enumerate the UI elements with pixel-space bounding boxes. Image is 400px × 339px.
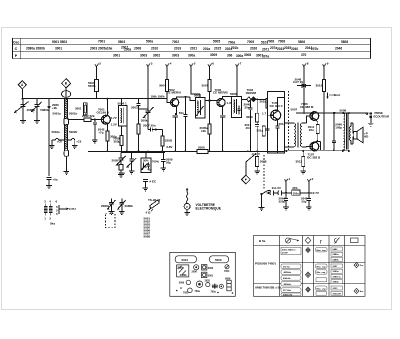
svg-text:500a: 500a	[146, 40, 153, 44]
svg-text:+2: +2	[98, 62, 102, 66]
svg-text:5480b: 5480b	[333, 258, 340, 261]
svg-text:2006: 2006	[198, 146, 205, 150]
wire battery caps	[283, 193, 289, 210]
junction dots on antenna bus	[21, 98, 67, 100]
wire 5008 primary to rails	[342, 113, 344, 150]
coil inside 5004	[120, 108, 123, 124]
table row2 values	[26, 46, 342, 52]
pcb part 5001b	[202, 272, 207, 277]
wire secondary bottom to T6 base	[302, 146, 310, 148]
pcb screw 7004	[225, 265, 229, 269]
wire T2 collector to 5005	[176, 97, 195, 101]
pcb part 7001	[188, 288, 193, 293]
svg-text:5008: 5008	[340, 109, 347, 113]
wire stub5 to 5005 top	[191, 79, 200, 98]
svg-text:2005a10a: 2005a10a	[98, 47, 112, 51]
wire 2006a to bus	[161, 146, 163, 151]
supply stub +6	[208, 65, 211, 80]
svg-text:4 Ω: 4 Ω	[146, 211, 152, 215]
svg-text:3001: 3001	[75, 107, 82, 111]
junction dot coupling	[184, 96, 186, 98]
wire diode node down to rail	[303, 86, 305, 113]
pots row wire	[121, 151, 165, 153]
IF transformer 5005 box	[195, 98, 205, 119]
transistor T5 7006	[310, 112, 319, 121]
resistor 3007	[208, 80, 211, 92]
svg-text:≠ EC: ≠ EC	[150, 179, 157, 183]
table row3 values	[113, 53, 307, 59]
svg-text:2006: 2006	[192, 271, 198, 274]
resistor 3004	[166, 80, 169, 92]
legend header rect symbol	[351, 238, 359, 243]
svg-text:+C6: +C6	[76, 140, 82, 144]
svg-text:Max. cap: Max. cap	[317, 266, 327, 268]
pcb part 5003	[202, 265, 207, 270]
svg-text:5480a: 5480a	[333, 253, 340, 256]
svg-text:201a: 201a	[257, 129, 264, 133]
ground below +5a jack	[46, 186, 52, 189]
svg-text:CE MER/A: CE MER/A	[167, 91, 183, 95]
capacitor 185 drop	[183, 97, 187, 152]
wire T2 emitter down	[175, 107, 177, 116]
svg-text:5001a: 5001a	[53, 112, 62, 116]
diode 7004b diamond	[251, 97, 256, 102]
capacitor 2007	[150, 128, 155, 132]
supply stub +2 above 5003	[95, 65, 98, 80]
earphone jack	[365, 113, 368, 115]
table frame	[13, 38, 371, 58]
svg-text:+4: +4	[168, 62, 172, 66]
svg-text:2080a 2080b: 2080a 2080b	[26, 47, 45, 51]
svg-text:POS/508 748(*): POS/508 748(*)	[255, 262, 276, 266]
battery terminal +1	[285, 180, 288, 193]
transistor T2 7002	[171, 98, 179, 106]
svg-text:2080b: 2080b	[333, 282, 340, 284]
svg-text:3001: 3001	[55, 46, 62, 50]
svg-text:5004 1: 5004 1	[118, 102, 128, 106]
wire T1 collector up to rail	[106, 99, 108, 116]
capacitor 2045	[306, 193, 312, 210]
svg-text:2003: 2003	[131, 106, 138, 110]
svg-text:I=±8mA: I=±8mA	[330, 93, 342, 97]
resistor 3011	[316, 120, 318, 124]
svg-text:306: 306	[227, 54, 233, 58]
voltmeter circle	[184, 203, 190, 209]
transistor T4 7005	[271, 110, 281, 120]
svg-text:201b: 201b	[260, 99, 267, 103]
wire output rail	[296, 112, 368, 114]
svg-text:30%: 30%	[292, 186, 298, 190]
svg-text:2019: 2019	[174, 47, 181, 51]
junction dot	[155, 129, 157, 131]
wire T4 base	[268, 114, 272, 116]
svg-text:100k 100%: 100k 100%	[151, 95, 166, 99]
svg-text:5ka: 5ka	[50, 222, 55, 226]
wire switch to ground	[259, 194, 265, 211]
svg-text:1.2V: 1.2V	[111, 123, 117, 127]
svg-text:+9: +9	[325, 62, 329, 66]
pickup connector coil 1	[44, 207, 48, 213]
svg-text:50µ: 50µ	[302, 199, 307, 203]
svg-text:5m: 5m	[360, 265, 363, 267]
svg-text:3012: 3012	[296, 159, 303, 163]
pcb coil 5000	[210, 256, 229, 263]
svg-text:5001: 5001	[182, 258, 189, 262]
battery terminal +2	[307, 180, 310, 193]
legend table frame	[254, 236, 366, 297]
svg-text:7002: 7002	[172, 40, 179, 44]
capacitor 2008	[161, 152, 165, 168]
wire secondary to speaker	[351, 123, 354, 144]
svg-text:50%: 50%	[143, 158, 149, 162]
svg-text:500a 2080a·±··: 500a 2080a·±··	[282, 249, 297, 251]
resistor 3013	[323, 80, 326, 92]
resistor 201b on box edge	[266, 99, 269, 109]
capacitor 2046b column	[332, 113, 336, 150]
ferrite rod with winding hatch	[65, 99, 68, 150]
loopstick oval	[62, 91, 71, 98]
svg-text:2008: 2008	[134, 47, 141, 51]
pickup arrow PU	[59, 205, 68, 214]
resistor 3040	[262, 126, 265, 136]
svg-text:3013: 3013	[316, 84, 323, 88]
wire 3002 to bus	[106, 141, 108, 151]
G_MID	[68, 62, 270, 157]
svg-text:5803: 5803	[118, 40, 125, 44]
wire 7008 to bus	[121, 146, 123, 152]
legend col3 diamonds	[306, 248, 311, 253]
svg-text:13k: 13k	[201, 129, 206, 133]
pcb small pads	[176, 287, 233, 294]
svg-text:5806: 5806	[298, 40, 305, 44]
pcb part 5006	[186, 280, 190, 284]
legend header diamond	[305, 237, 311, 243]
svg-text:100µ: 100µ	[335, 126, 342, 130]
svg-text:Min. cap: Min. cap	[317, 272, 326, 274]
svg-text:702a: 702a	[211, 290, 217, 293]
pcb cap 2006	[194, 265, 199, 270]
svg-text:2080a: 2080a	[101, 204, 110, 208]
svg-text:501 5a: 501 5a	[283, 266, 290, 268]
svg-text:+2: +2	[310, 177, 314, 181]
svg-text:20n: 20n	[309, 128, 314, 132]
svg-text:50µ: 50µ	[166, 160, 171, 164]
pcb part 2033	[206, 283, 210, 287]
junction dot T3 base	[208, 99, 210, 101]
legend col2 cells	[281, 247, 301, 296]
svg-text:2x1.5V: 2x1.5V	[272, 186, 281, 190]
capacitor T2 emitter	[173, 113, 178, 151]
svg-text:2080b: 2080b	[180, 274, 187, 277]
pcb cross part 5007	[212, 284, 217, 289]
svg-text:3004: 3004	[159, 83, 166, 87]
svg-text:201b: 201b	[231, 46, 238, 50]
resistor 300k column	[138, 109, 140, 124]
volume resistor 3008	[256, 151, 258, 156]
svg-text:CE 388 M: CE 388 M	[300, 105, 314, 109]
capacitor 2028	[266, 124, 270, 134]
svg-text:1.7V: 1.7V	[111, 116, 117, 120]
svg-text:CAT 2k: CAT 2k	[293, 80, 303, 84]
wire 3011 to T6 emitter	[316, 134, 318, 142]
svg-text:300µ: 300µ	[114, 139, 121, 143]
wire T4 collector	[277, 98, 284, 112]
svg-text:+7: +7	[238, 62, 242, 66]
svg-text:3001: 3001	[113, 53, 120, 57]
svg-text:ECOUTEUR: ECOUTEUR	[374, 114, 390, 118]
svg-text:≠ PU: ≠ PU	[69, 207, 76, 211]
ferrite rod middle joint	[64, 119, 69, 125]
resistor 3009	[256, 99, 258, 113]
svg-text:OC169 B: OC169 B	[97, 110, 110, 114]
pickup connector coil 2	[49, 207, 53, 213]
svg-text:20·6P: 20·6P	[282, 252, 288, 254]
svg-text:3008: 3008	[260, 159, 267, 163]
svg-text:320Ω: 320Ω	[165, 138, 173, 142]
pickup pin numbers	[44, 200, 58, 221]
svg-text:7008: 7008	[267, 39, 274, 43]
wire diamond B to loop	[65, 88, 67, 99]
wire primary bottom	[285, 146, 294, 148]
variable capacitor 2080b	[32, 99, 42, 112]
wire 5004 bottom down	[121, 126, 123, 136]
svg-text:+1: +1	[287, 177, 291, 181]
winding 5002b pickoff loop	[68, 138, 78, 148]
wire 5006 to detector	[242, 98, 248, 100]
battery connector right	[278, 190, 292, 195]
pot inside box	[142, 163, 148, 170]
svg-text:3002: 3002	[153, 54, 160, 58]
svg-text:2046: 2046	[335, 46, 342, 50]
svg-text:806kHz: 806kHz	[283, 278, 291, 280]
svg-text:2071: 2071	[262, 47, 269, 51]
resistor 7008	[120, 136, 123, 146]
svg-text:4m: 4m	[360, 290, 363, 293]
wire 5004 top to rail	[121, 99, 123, 106]
table row1 values	[52, 39, 348, 44]
pcb trimmer box	[177, 265, 189, 277]
capacitor 2011	[255, 122, 259, 151]
svg-text:5480: 5480	[333, 248, 339, 251]
wire 3013 to rail	[323, 92, 325, 114]
svg-text:B 5a: B 5a	[259, 239, 266, 243]
svg-text:5001: 5001	[208, 274, 214, 277]
svg-text:OC 380 C: OC 380 C	[270, 104, 284, 108]
wire T1 base from winding	[68, 119, 102, 121]
resistor 2006a	[161, 136, 164, 146]
svg-text:2033a/R: 2033a/R	[333, 293, 342, 295]
svg-text:7005: 7005	[247, 40, 254, 44]
svg-text:2040: 2040	[291, 47, 298, 51]
junction base node	[94, 119, 96, 121]
pcb part 700a big	[196, 281, 202, 287]
svg-text:3009: 3009	[210, 53, 217, 57]
capacitor 2003	[136, 99, 148, 109]
svg-text:201a: 201a	[203, 47, 210, 51]
speaker HD	[354, 131, 357, 139]
svg-text:2033: 2033	[333, 288, 339, 290]
svg-text:AMB 700/USB ± 5d: AMB 700/USB ± 5d	[255, 285, 281, 289]
G_LEFT	[15, 62, 102, 189]
svg-text:+8: +8	[305, 62, 309, 66]
wire bus tap to diamond	[246, 154, 256, 176]
G_LEGEND	[254, 236, 366, 297]
svg-text:5006: 5006	[179, 282, 185, 285]
pot 2	[127, 152, 136, 167]
svg-text:5002b: 5002b	[69, 130, 78, 134]
ground below jack	[368, 118, 374, 126]
svg-text:+5: +5	[192, 62, 196, 66]
pcb board outline	[170, 252, 236, 296]
wire secondary top to T5 base	[302, 116, 310, 123]
shielded resistor 3001 beside rod	[83, 103, 87, 116]
svg-text:7001: 7001	[98, 40, 105, 44]
wire 3004 to T2 base	[167, 92, 171, 103]
tone control box	[141, 158, 151, 172]
wire box top	[145, 152, 147, 158]
node diamond B	[62, 79, 71, 88]
wire diamond A to antenna bus	[21, 89, 23, 99]
wire 5004 secondary to bus	[126, 126, 128, 151]
trimmer 2080a separate	[108, 199, 116, 210]
wire decoupling column	[323, 113, 325, 150]
variable capacitor 2080a	[15, 99, 29, 113]
svg-text:-805kHz: -805kHz	[283, 272, 292, 274]
svg-text:V: V	[186, 205, 188, 209]
wire 5003 to antenna bus	[96, 92, 98, 99]
coil inside 5006	[233, 99, 240, 115]
winding 5002a pickoff loop	[49, 138, 65, 148]
trimmer 2080b separate	[118, 199, 126, 210]
svg-text:300k: 300k	[141, 119, 148, 123]
ferrite rod bottom cap	[64, 150, 68, 156]
svg-text:517 kHz: 517 kHz	[283, 290, 292, 292]
svg-text:5005: 5005	[213, 40, 220, 44]
parts list	[144, 217, 151, 239]
svg-text:5000: 5000	[215, 258, 222, 262]
svg-text:Osc: Osc	[13, 40, 20, 44]
svg-text:3007: 3007	[202, 83, 209, 87]
node diamond C	[241, 175, 250, 184]
svg-text:ELECTRONIQUE: ELECTRONIQUE	[196, 207, 221, 211]
G_PCB	[170, 252, 236, 296]
wire antenna bus	[22, 98, 96, 100]
supply stub +7	[236, 65, 239, 80]
svg-text:2080a·b: 2080a·b	[333, 276, 342, 278]
svg-text:2010: 2010	[151, 46, 158, 50]
wire AGC rail	[97, 98, 168, 100]
wire 2005	[209, 101, 211, 152]
supply stub +8	[303, 65, 306, 73]
legend col6 symbols	[354, 263, 359, 268]
svg-text:5080b: 5080b	[40, 108, 49, 112]
IF transformer 5006 box	[231, 97, 241, 118]
junction dots rail2	[303, 112, 350, 114]
wire junction to 2006a	[156, 130, 163, 137]
wire stub7 to 5006 top	[236, 79, 238, 97]
svg-text:2027: 2027	[333, 266, 339, 268]
trimmer arrow inside 5005	[197, 106, 204, 116]
svg-text:2080a: 2080a	[333, 271, 340, 273]
battery connector left	[266, 190, 278, 195]
legend header g symbol	[334, 238, 339, 244]
svg-text:3003: 3003	[140, 53, 147, 57]
svg-text:700a: 700a	[195, 290, 201, 293]
legend header pot symbol	[285, 238, 290, 243]
wire T5 collector tick	[316, 111, 317, 114]
svg-text:300a: 300a	[188, 54, 195, 58]
svg-text:3008: 3008	[244, 53, 251, 57]
svg-text:+6: +6	[211, 62, 215, 66]
svg-text:370: 370	[301, 53, 307, 57]
transistor T6 7007	[310, 142, 319, 151]
svg-text:+C6: +C6	[57, 140, 63, 144]
ground below 2042	[92, 140, 98, 143]
svg-text:+5a: +5a	[53, 177, 58, 181]
G_BOTTOM	[44, 146, 350, 239]
G_RIGHT	[257, 62, 390, 160]
svg-text:-860kHz: -860kHz	[283, 284, 292, 286]
svg-text:20n: 20n	[245, 106, 250, 110]
wire T3 emitter cap	[220, 107, 225, 152]
svg-text:7008: 7008	[278, 40, 285, 44]
svg-text:OC 382 B: OC 382 B	[307, 155, 321, 159]
capacitor 2040	[249, 99, 253, 151]
svg-text:5008: 5008	[144, 235, 151, 239]
svg-text:5001 5803: 5001 5803	[52, 40, 67, 44]
supply stub +9	[323, 65, 326, 73]
fuse box 302a	[292, 190, 300, 195]
pot 3306a	[117, 152, 126, 165]
transistor T1 7001	[101, 115, 110, 124]
svg-text:CE MER/B: CE MER/B	[213, 91, 229, 95]
supply stub +4	[166, 65, 169, 80]
svg-text:307a: 307a	[262, 54, 269, 58]
svg-text:700%: 700%	[152, 160, 159, 164]
coil inside 5005	[197, 100, 200, 115]
wire T4 emitter	[276, 119, 278, 126]
legend col5 cells	[331, 247, 343, 295]
trimmer node 2080	[48, 105, 51, 108]
svg-text:5606: 5606	[225, 277, 231, 280]
svg-text:2005: 2005	[112, 159, 119, 163]
svg-text:3009: 3009	[246, 115, 253, 119]
svg-text:207b: 207b	[311, 47, 318, 51]
wire diodes to amp box	[255, 98, 268, 100]
svg-text:1.7: 1.7	[262, 111, 267, 115]
svg-text:700a: 700a	[228, 40, 235, 44]
diode 7004a diamond	[247, 97, 252, 102]
G_TABLE	[13, 38, 371, 58]
svg-text:5006: 5006	[230, 92, 237, 96]
resistor 3002	[106, 131, 109, 141]
svg-text:320µ: 320µ	[279, 199, 286, 203]
svg-text:50n: 50n	[179, 111, 184, 115]
dashed gang box	[106, 214, 116, 228]
wire varcap to 2007	[148, 116, 150, 130]
junction dots bus	[106, 150, 349, 152]
wire trimmer down to PU area	[48, 108, 50, 176]
svg-text:7003: 7003	[183, 292, 189, 295]
resistor 2002	[84, 118, 91, 121]
junction dots rail	[106, 98, 149, 100]
ground below 2080a	[20, 112, 26, 124]
capacitor 2014	[275, 126, 279, 153]
driver stage box	[268, 92, 285, 154]
svg-text:C: C	[15, 47, 18, 51]
svg-text:2080b: 2080b	[125, 204, 134, 208]
svg-text:Max. cap: Max. cap	[317, 288, 327, 290]
